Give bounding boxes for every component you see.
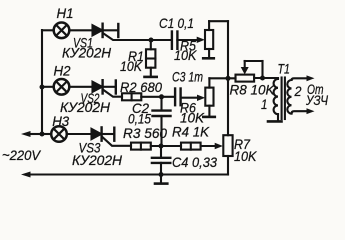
svg-text:T1: T1 [278, 61, 291, 77]
wire right bus vertical [227, 21, 229, 135]
wire mains live with arrow [21, 131, 42, 137]
svg-text:2: 2 [294, 83, 302, 99]
svg-text:~220V: ~220V [2, 147, 42, 163]
capacitor C4 [152, 146, 170, 184]
svg-text:10K: 10K [174, 47, 197, 63]
wire R3 to R4 [151, 145, 181, 147]
thyristor VS2 [93, 80, 116, 93]
svg-text:H3: H3 [52, 113, 69, 129]
potentiometer R8 [236, 61, 263, 82]
wire H2 to VS2 anode [69, 86, 92, 88]
thyristor VS1 [93, 24, 119, 37]
svg-text:R8 10K: R8 10K [230, 82, 276, 98]
svg-text:R2 680: R2 680 [120, 79, 162, 95]
node junction C4 bottom [159, 172, 164, 177]
transformer T1 primary winding 1 [274, 79, 278, 120]
wire VS3 gate to R3 [103, 137, 132, 146]
wire R6 top to bus and R8 [209, 77, 235, 79]
arrow secondary bottom output [307, 108, 315, 114]
thyristor VS3 [92, 127, 115, 140]
lamp H2 [54, 79, 70, 95]
wire H3 to VS3 anode [67, 133, 92, 135]
potentiometer R5 [203, 21, 214, 58]
capacitor C3 [175, 89, 181, 106]
svg-text:10K: 10K [120, 58, 143, 74]
ground chassis T1 primary [268, 120, 282, 123]
potentiometer R7 [223, 135, 232, 174]
capacitor C1 [172, 32, 178, 49]
capacitor C2 [153, 97, 171, 146]
svg-text:C1 0,1: C1 0,1 [159, 15, 194, 31]
lamp H1 [54, 23, 70, 39]
svg-text:R3 560: R3 560 [123, 125, 167, 141]
wire R8 to T1 primary [254, 77, 278, 79]
wire row1 from bus to lamp H1 [42, 29, 54, 31]
svg-text:КУ202Н: КУ202Н [72, 153, 122, 168]
arrow secondary top output [307, 75, 315, 81]
lamp H3 [51, 126, 67, 142]
potentiometer R6 [203, 78, 215, 117]
resistor R3 560 [131, 143, 151, 150]
wire mains neutral return with arrow [21, 172, 228, 178]
wire row2 from bus to lamp H2 [42, 86, 54, 88]
node junction row2 bus [40, 85, 45, 90]
svg-text:H2: H2 [54, 63, 71, 79]
svg-text:H1: H1 [57, 5, 74, 21]
svg-text:1: 1 [261, 96, 268, 112]
resistor R1 [145, 40, 157, 77]
wire VS2 gate to R2 [104, 90, 123, 97]
wire R4 to R7 wiper arrow [201, 143, 223, 149]
transformer T1 core [282, 78, 285, 120]
wire C1 to R5 wiper arrow [177, 37, 205, 43]
wire R2 to C3 [141, 96, 174, 98]
wire left bus vertical [41, 30, 43, 134]
node junction bus R8 [226, 76, 231, 81]
transformer T1 secondary winding 2 [287, 78, 307, 113]
node junction R1 top [149, 38, 154, 43]
resistor R2 680 [122, 93, 141, 100]
svg-text:R4 1K: R4 1K [172, 124, 210, 140]
wire R5 top to right bus [209, 20, 228, 22]
node junction R8 right [260, 76, 265, 81]
svg-text:КУ202Н: КУ202Н [62, 46, 111, 61]
wire H1 to VS1 anode [69, 29, 92, 31]
resistor R4 1K [181, 143, 201, 150]
svg-text:C3 1m: C3 1m [172, 69, 203, 85]
node junction row3 bus [40, 132, 45, 137]
node junction C2 top [159, 94, 164, 99]
svg-text:C4 0,33: C4 0,33 [172, 154, 217, 170]
svg-text:УЗЧ: УЗЧ [305, 92, 328, 108]
svg-text:10K: 10K [234, 148, 257, 164]
wire VS1 gate to row1 net [104, 34, 172, 41]
wire row3 from bus to lamp H3 [42, 133, 51, 135]
wire C3 to R6 wiper arrow [181, 95, 206, 101]
node junction C4 top [159, 144, 164, 149]
